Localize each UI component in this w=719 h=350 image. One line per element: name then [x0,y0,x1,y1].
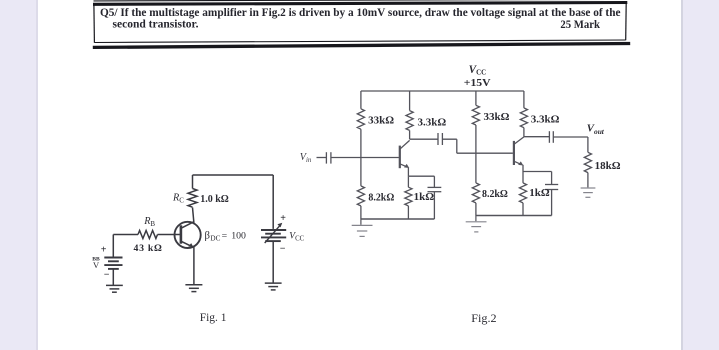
wire: input base wire to Q1 [331,157,399,159]
svg-text:Q5/ If the multistage amplifie: Q5/ If the multistage amplifier in Fig.2… [100,7,621,19]
wire: stage 1 bottom rail [361,218,435,220]
svg-text:3.3kΩ: 3.3kΩ [531,113,560,125]
svg-text:18kΩ: 18kΩ [595,160,621,172]
resistor R6 8.2kΩ (stage 2 divider bottom) [472,183,479,216]
transistor Q (Fig.1) [175,222,201,248]
resistor RB 43 kΩ [138,231,158,239]
wire: emitter to ground (Fig.1) [193,247,195,284]
wire: stage 1 divider mid [360,158,362,186]
svg-text:V: V [93,260,100,270]
ground: output load [581,188,596,197]
svg-text:+: + [280,213,286,224]
wire: Q1 emitter drop [407,168,409,177]
svg-text:1kΩ: 1kΩ [529,187,550,199]
ground: stage 1 [352,219,373,236]
resistor R4 1kΩ (stage 1 emitter) [405,176,412,219]
svg-text:Fig. 1: Fig. 1 [200,311,227,324]
wire: C4 to Vout node [553,136,588,138]
svg-text:43 kΩ: 43 kΩ [134,243,163,254]
ground: VBB [106,285,123,292]
transistor Q2 (stage 2) [514,137,524,166]
svg-text:−: − [280,243,286,254]
wire: VBB to ground [112,269,114,285]
ground: emitter (Fig.1) [185,285,202,292]
resistor R7 3.3kΩ (stage 2 collector) [520,91,527,137]
resistor R5 33kΩ (stage 2 divider top) [472,91,479,153]
wire: Vout node to RL [587,137,589,152]
header question text [100,7,621,31]
ground: VCC (Fig.1) [265,283,282,290]
resistor RL 18kΩ (load) [584,152,591,187]
wire: base wire (Fig.1) [158,234,180,236]
Fig.2 labels [368,64,621,325]
svg-text:8.2kΩ: 8.2kΩ [482,188,508,200]
svg-text:1.0 kΩ: 1.0 kΩ [200,194,229,205]
wire: Vin lead [317,157,327,159]
ground: stage 2 [466,216,487,232]
wire: Q2 emitter to bypass capacitor [523,171,552,173]
resistor R8 1kΩ (stage 2 emitter) [519,172,526,216]
wire: Q2 emitter drop [522,165,524,172]
svg-text:Fig.2: Fig.2 [471,312,497,325]
svg-text:33kΩ: 33kΩ [368,114,394,126]
svg-text:VCC: VCC [469,64,487,77]
svg-text:+: + [101,245,107,256]
svg-text:VCC: VCC [289,232,304,243]
wire: top rail from RC to VCC battery (Fig.1) [193,174,274,176]
svg-text:−: − [104,270,110,281]
resistor R3 3.3kΩ (stage 1 collector) [406,91,413,139]
battery VBB [104,258,122,269]
resistor R2 8.2kΩ (stage 1 divider bottom) [357,186,364,219]
svg-text:Vout: Vout [587,123,605,136]
svg-text:βDC=100: βDC=100 [205,229,246,242]
svg-text:RB: RB [143,216,155,228]
wire: VBB to RB [113,235,138,257]
svg-text:Vin: Vin [300,152,312,164]
wire: Q1 collector corner to C2 [410,138,438,140]
svg-text:8.2kΩ: 8.2kΩ [368,191,394,203]
svg-text:3.3kΩ: 3.3kΩ [418,117,447,129]
svg-text:33kΩ: 33kΩ [484,111,510,123]
header question box [93,0,630,47]
wire: +15V supply rail [361,90,524,92]
wire: C2 to Q2 base [442,139,513,153]
transistor Q1 (stage 1) [400,140,410,168]
wire: stage 2 divider mid [475,153,477,183]
Fig.1 labels [92,192,304,324]
capacitor C5 (stage 2 bypass) [545,172,558,216]
resistor R1 33kΩ (stage 1 divider top) [357,91,364,158]
svg-text:1kΩ: 1kΩ [414,191,435,203]
capacitor C4 (output coupling) [549,131,553,143]
svg-text:25 Mark: 25 Mark [560,19,600,31]
wire: VCC battery to ground (Fig.1) [272,241,274,282]
capacitor C1 (input coupling) [326,152,331,163]
wire: Q1 emitter to bypass capacitor [408,175,434,177]
svg-text:second transistor.: second transistor. [113,19,199,31]
capacitor C3 (stage 1 bypass) [428,176,442,219]
capacitor C2 (interstage coupling) [438,133,442,145]
wire: VCC battery drop (Fig.1) [272,175,274,229]
resistor RC 1.0 kΩ [188,175,197,207]
wire: Q2 collector corner to C4 [524,136,550,138]
svg-text:RC: RC [172,192,184,204]
svg-text:+15V: +15V [464,77,491,89]
battery VCC (Fig.1) [261,223,286,243]
wire: collector to RC [193,208,194,223]
wire: stage 2 bottom rail [476,215,552,217]
